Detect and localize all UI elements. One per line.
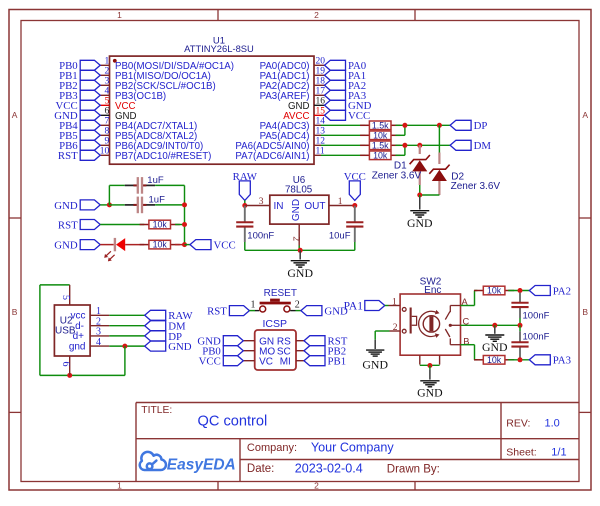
svg-text:1uF: 1uF (147, 175, 164, 186)
svg-text:10uF: 10uF (329, 231, 351, 242)
svg-text:1.0: 1.0 (545, 417, 560, 429)
svg-text:9: 9 (104, 137, 109, 147)
svg-text:VCC: VCC (348, 110, 370, 122)
svg-text:6: 6 (104, 107, 109, 117)
svg-text:VC: VC (259, 356, 273, 367)
svg-text:A: A (582, 110, 588, 120)
svg-text:2: 2 (291, 236, 301, 241)
svg-text:5: 5 (60, 295, 71, 300)
svg-text:GND: GND (291, 199, 302, 221)
svg-text:2: 2 (104, 67, 109, 77)
svg-text:PB7(ADC10/#RESET): PB7(ADC10/#RESET) (115, 151, 211, 162)
svg-text:GND: GND (362, 357, 388, 371)
svg-text:EasyEDA: EasyEDA (167, 457, 236, 474)
svg-text:1.5k: 1.5k (372, 120, 389, 130)
svg-text:Date:: Date: (247, 463, 275, 475)
svg-text:1: 1 (251, 299, 256, 310)
svg-text:REV:: REV: (506, 417, 530, 429)
svg-text:4: 4 (104, 87, 109, 97)
svg-text:PA7(ADC6/AIN1): PA7(ADC6/AIN1) (235, 151, 309, 162)
svg-text:GND: GND (482, 340, 508, 354)
svg-text:7: 7 (104, 117, 109, 127)
svg-text:3: 3 (259, 197, 264, 207)
svg-text:GND: GND (54, 240, 78, 252)
svg-text:PA3: PA3 (553, 355, 571, 367)
svg-text:100nF: 100nF (247, 231, 274, 242)
svg-text:gnd: gnd (69, 341, 86, 352)
svg-text:ATTINY26L-8SU: ATTINY26L-8SU (184, 43, 254, 54)
svg-text:10k: 10k (487, 286, 502, 296)
svg-text:1: 1 (117, 10, 122, 20)
svg-text:VCC: VCC (214, 240, 236, 252)
svg-text:1: 1 (117, 481, 122, 491)
svg-text:GND: GND (168, 341, 192, 353)
svg-text:PB1: PB1 (328, 356, 347, 368)
svg-text:Zener 3.6V: Zener 3.6V (372, 171, 422, 182)
svg-text:A: A (12, 110, 18, 120)
svg-text:Zener 3.6V: Zener 3.6V (451, 181, 501, 192)
svg-text:2: 2 (295, 299, 300, 310)
svg-text:OUT: OUT (304, 201, 325, 212)
svg-text:100nF: 100nF (523, 332, 550, 343)
svg-text:RESET: RESET (264, 288, 297, 299)
svg-text:1.5k: 1.5k (372, 140, 389, 150)
svg-text:8: 8 (104, 127, 109, 137)
svg-text:PA2: PA2 (553, 285, 571, 297)
svg-text:2: 2 (314, 481, 319, 491)
svg-text:10: 10 (100, 147, 110, 157)
svg-text:1uF: 1uF (149, 194, 166, 205)
svg-text:GND: GND (407, 216, 433, 230)
svg-text:Sheet:: Sheet: (506, 446, 536, 458)
svg-text:1: 1 (104, 57, 109, 67)
svg-text:5: 5 (104, 97, 109, 107)
svg-text:RST: RST (207, 306, 227, 318)
svg-text:MI: MI (280, 356, 291, 367)
svg-text:TITLE:: TITLE: (141, 405, 172, 416)
svg-text:VCC: VCC (344, 171, 366, 183)
svg-text:QC control: QC control (198, 413, 268, 429)
svg-text:1/1: 1/1 (551, 446, 566, 458)
svg-text:2: 2 (393, 323, 398, 333)
svg-text:3: 3 (104, 77, 109, 87)
svg-text:Drawn By:: Drawn By: (387, 464, 440, 476)
svg-text:10k: 10k (373, 130, 388, 140)
svg-text:B: B (12, 307, 18, 317)
svg-text:2: 2 (314, 10, 319, 20)
svg-text:DM: DM (474, 140, 492, 152)
svg-text:10k: 10k (487, 355, 502, 365)
svg-text:ICSP: ICSP (262, 318, 287, 330)
svg-text:1: 1 (338, 197, 343, 207)
svg-text:B: B (582, 307, 588, 317)
svg-text:RST: RST (58, 219, 78, 231)
svg-text:10k: 10k (373, 150, 388, 160)
svg-text:4: 4 (96, 337, 101, 348)
svg-text:GND: GND (287, 266, 313, 280)
svg-text:10k: 10k (153, 240, 168, 250)
svg-text:RAW: RAW (233, 171, 258, 183)
svg-text:1: 1 (392, 298, 397, 308)
svg-text:10k: 10k (153, 220, 168, 230)
svg-text:DP: DP (474, 120, 488, 132)
svg-text:2023-02-0.4: 2023-02-0.4 (295, 462, 363, 476)
svg-text:GND: GND (417, 386, 443, 400)
svg-text:Company:: Company: (247, 442, 297, 454)
svg-text:IN: IN (274, 201, 284, 212)
svg-text:1: 1 (96, 306, 101, 317)
svg-text:Your Company: Your Company (311, 440, 395, 454)
svg-text:RST: RST (58, 150, 78, 162)
svg-text:PA1: PA1 (344, 300, 364, 312)
svg-text:6: 6 (60, 362, 71, 367)
svg-text:GND: GND (54, 200, 78, 212)
svg-text:VCC: VCC (199, 356, 221, 368)
svg-text:78L05: 78L05 (285, 185, 313, 196)
svg-text:100nF: 100nF (523, 311, 550, 322)
